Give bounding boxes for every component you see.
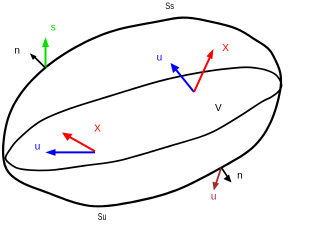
vector s (green, up)	[42, 37, 49, 68]
svg-text:X: X	[94, 124, 101, 135]
vector n (black normal, upper left)	[30, 53, 46, 68]
vector u (blue, upper patch)	[171, 63, 195, 92]
equator ellipse	[5, 67, 281, 170]
svg-text:X: X	[222, 43, 229, 54]
vector u (dark red, bottom right)	[213, 168, 222, 191]
vector n (black normal, bottom right)	[221, 168, 231, 183]
svg-text:n: n	[237, 170, 243, 181]
svg-text:s: s	[51, 23, 56, 34]
svg-text:u: u	[157, 53, 163, 64]
vector X (red, lower-left patch)	[62, 133, 95, 152]
svg-text:Su: Su	[98, 212, 107, 220]
vector u (blue, lower-left patch)	[45, 149, 95, 156]
svg-text:V: V	[215, 103, 222, 114]
vector X (red, upper patch)	[194, 49, 214, 92]
svg-text:Ss: Ss	[165, 0, 174, 11]
svg-text:u: u	[211, 192, 217, 203]
svg-text:n: n	[14, 45, 20, 56]
ellipsoid silhouette (outer ellipse)	[3, 18, 281, 207]
svg-text:u: u	[35, 142, 41, 153]
